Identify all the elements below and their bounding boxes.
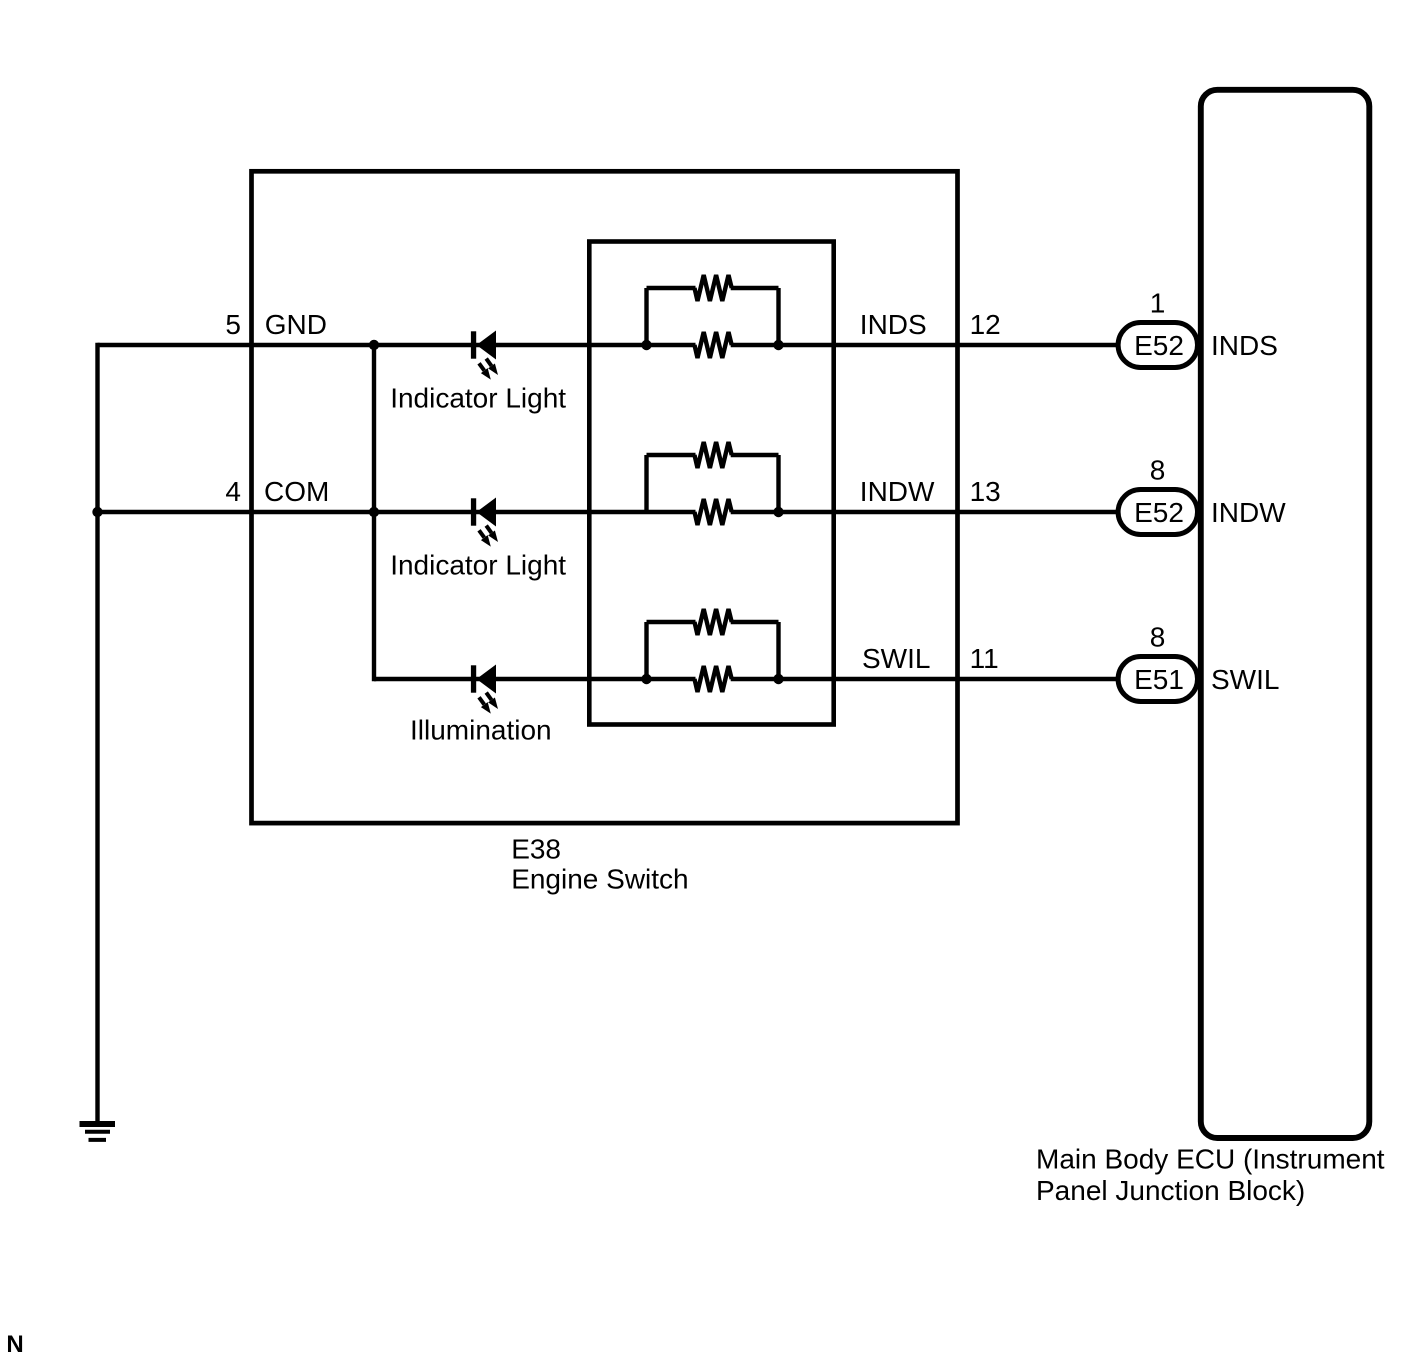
svg-text:COM: COM	[264, 476, 329, 507]
resistor pair R1a/R1b row1	[647, 288, 779, 347]
resistor R3a zigzag top row3	[695, 609, 732, 635]
wire mid vertical connector	[372, 343, 376, 681]
svg-text:Engine Switch: Engine Switch	[511, 863, 688, 894]
junction node row2 resistor right	[773, 507, 783, 517]
svg-text:Panel Junction Block): Panel Junction Block)	[1036, 1175, 1305, 1206]
svg-text:INDW: INDW	[1211, 497, 1286, 528]
resistor pair R2a/R2b row2	[647, 455, 779, 514]
wire left vertical to ground	[95, 343, 99, 1121]
wire row 2 COM left segment	[98, 510, 696, 514]
resistor R3b zigzag bottom row3	[695, 666, 732, 692]
resistor pair R3a/R3b row3	[647, 622, 779, 681]
svg-text:Indicator Light: Indicator Light	[390, 550, 566, 581]
wire row 1 GND left segment	[98, 343, 696, 347]
svg-text:E52: E52	[1134, 330, 1184, 361]
svg-text:11: 11	[970, 643, 999, 674]
svg-text:12: 12	[970, 309, 1001, 340]
junction node row1 mid	[369, 340, 379, 350]
LED D2 indicator light row2	[471, 498, 498, 547]
svg-text:8: 8	[1150, 455, 1166, 486]
wire row 2 COM right segment	[731, 510, 1118, 514]
resistor R2a zigzag top row2	[695, 442, 732, 468]
svg-text:1: 1	[1150, 288, 1166, 319]
junction node row3 resistor right	[773, 674, 783, 684]
LED D1 indicator light row1	[471, 331, 498, 380]
svg-text:E52: E52	[1134, 497, 1184, 528]
svg-text:5: 5	[225, 309, 241, 340]
wire row 3 SWIL left segment	[374, 677, 696, 681]
svg-text:INDS: INDS	[860, 309, 927, 340]
svg-text:SWIL: SWIL	[1211, 664, 1279, 695]
junction node row2 left	[92, 507, 102, 517]
svg-text:13: 13	[970, 476, 1001, 507]
svg-text:INDS: INDS	[1211, 330, 1278, 361]
svg-text:8: 8	[1150, 622, 1166, 653]
svg-text:INDW: INDW	[860, 476, 935, 507]
svg-text:GND: GND	[265, 309, 327, 340]
svg-text:Main Body ECU (Instrument: Main Body ECU (Instrument	[1036, 1144, 1385, 1175]
wire row 1 GND right segment	[731, 343, 1118, 347]
wire row 3 SWIL right segment	[731, 677, 1118, 681]
junction node row3 resistor left	[641, 674, 651, 684]
junction node row2 mid	[369, 507, 379, 517]
resistor R2b zigzag bottom row2	[695, 499, 732, 525]
inner resistor box	[589, 242, 833, 725]
svg-text:4: 4	[225, 476, 241, 507]
connector E52 pin8 pill	[1118, 490, 1197, 535]
svg-text:E38: E38	[511, 833, 561, 864]
svg-text:E51: E51	[1134, 664, 1184, 695]
resistor R1a zigzag top row1	[695, 275, 732, 301]
svg-text:SWIL: SWIL	[862, 643, 930, 674]
connector E52 pin1 pill	[1118, 323, 1197, 368]
ECU rounded box	[1201, 90, 1370, 1138]
svg-text:Illumination: Illumination	[410, 715, 552, 746]
connector E51 pin8 pill	[1118, 657, 1197, 702]
junction node row1 resistor right	[773, 340, 783, 350]
E38 engine switch box	[252, 171, 958, 823]
resistor R1b zigzag bottom row1	[695, 332, 732, 358]
LED D3 illumination row3	[471, 665, 498, 714]
junction node row1 resistor left	[641, 340, 651, 350]
ground symbol	[80, 1124, 116, 1140]
svg-text:Indicator Light: Indicator Light	[390, 383, 566, 414]
svg-text:N: N	[6, 1331, 23, 1358]
